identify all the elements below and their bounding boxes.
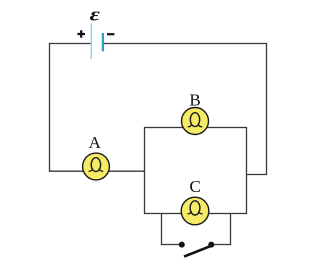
battery minus sign — [107, 33, 114, 35]
battery plus sign — [77, 30, 85, 38]
battery EMF source: long positive plate — [90, 24, 92, 60]
switch right contact dot — [208, 242, 214, 248]
wire outer right — [266, 43, 268, 175]
svg-text:A: A — [89, 133, 102, 152]
wire switch left segment — [161, 244, 182, 246]
switch left contact dot — [179, 242, 185, 248]
bulb C circle — [181, 197, 209, 225]
bulb A filament — [91, 158, 100, 172]
svg-text:B: B — [189, 91, 200, 110]
bulb A circle — [83, 153, 110, 180]
wire right drop to switch — [230, 214, 232, 245]
wire switch right segment — [211, 244, 231, 246]
switch blade (open) — [184, 246, 212, 257]
wire top right (battery right lead) — [103, 43, 267, 45]
wire outer left — [49, 43, 51, 171]
battery EMF source: short negative plate — [102, 33, 104, 51]
bulb B filament — [190, 113, 199, 127]
bulb C filament — [190, 201, 200, 215]
wire right connector to parallel block — [247, 174, 268, 176]
svg-text:ε: ε — [90, 4, 100, 25]
svg-text:C: C — [190, 177, 201, 196]
bulb B circle — [182, 108, 209, 135]
wire top left (battery left lead) — [50, 43, 92, 45]
wire inner rectangle (parallel B and C block) — [145, 128, 247, 214]
wire left drop to switch — [161, 214, 163, 245]
wire branch through bulb A — [49, 170, 145, 172]
